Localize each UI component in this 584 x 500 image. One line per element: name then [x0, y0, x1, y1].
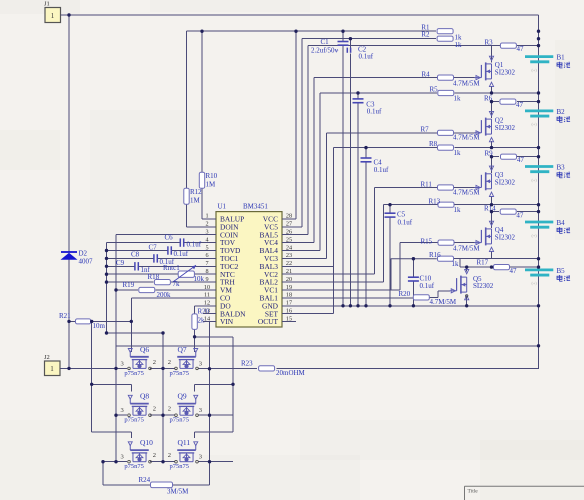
- pin 14 VIN: [203, 315, 234, 326]
- pin 8 NTC: [203, 268, 235, 279]
- wire TRH row left of R18: [107, 281, 154, 283]
- wire pin 23 riser: [326, 133, 328, 259]
- resistor R7: [421, 126, 481, 142]
- wire pin 21 stub: [282, 273, 375, 275]
- wire R24 right riser: [209, 462, 211, 485]
- wire TOC1 row left of C8: [107, 257, 154, 259]
- resistor R5: [430, 86, 462, 103]
- pin 26 BAL5: [260, 229, 296, 240]
- svg-text:C5: C5: [397, 211, 406, 219]
- svg-text:4.7M/5M: 4.7M/5M: [430, 298, 457, 306]
- wire row3 left: [103, 461, 127, 463]
- wire C5 bottom: [389, 217, 391, 306]
- svg-text:1M: 1M: [190, 197, 201, 205]
- wire BALDN stub: [203, 313, 216, 315]
- resistor R19: [123, 281, 172, 299]
- svg-text:BM3451: BM3451: [243, 203, 268, 211]
- svg-text:1k: 1k: [455, 41, 463, 49]
- diode D2: [61, 250, 94, 266]
- wire Q9 gate stub: [194, 384, 196, 391]
- transistor Q7: [175, 349, 199, 370]
- wire C3 bottom: [357, 103, 359, 306]
- transistor Q6: [128, 349, 152, 370]
- svg-text:21: 21: [286, 268, 292, 275]
- resistor R21: [59, 312, 106, 330]
- svg-text:2: 2: [168, 406, 171, 413]
- wire node row: [454, 147, 491, 149]
- wire R24 left drop: [102, 462, 104, 485]
- wire R17 row left: [460, 266, 494, 268]
- battery B4: [525, 219, 570, 238]
- wire pin 21 riser: [374, 188, 376, 275]
- svg-text:47: 47: [516, 211, 524, 219]
- wire gate row to Q10: [92, 431, 132, 433]
- transistor Q3: [474, 166, 493, 196]
- svg-text:R3: R3: [485, 38, 494, 46]
- wire node row: [454, 204, 491, 206]
- wire row to R5: [320, 92, 437, 94]
- svg-text:19: 19: [286, 284, 292, 291]
- wire into DOIN pin 2: [187, 226, 204, 228]
- wire Q1 source down: [491, 86, 493, 93]
- svg-text:(+): (+): [532, 67, 538, 72]
- svg-text:20: 20: [286, 276, 292, 283]
- wire R20 to Q5 gate1: [429, 296, 438, 298]
- wire VC1 row to R16: [391, 258, 437, 260]
- wire OCUT pin 15 stub: [282, 321, 296, 323]
- wire gate lead Q2: [454, 132, 474, 134]
- pin 15 OCUT: [258, 315, 296, 326]
- svg-text:24: 24: [286, 244, 292, 251]
- wire jog down to R17 row: [459, 259, 461, 267]
- svg-text:p75n75: p75n75: [124, 463, 143, 470]
- wire Q8 gate stub: [130, 384, 132, 391]
- wire row to R8: [334, 147, 437, 149]
- wire middle bus vertical: [162, 333, 164, 462]
- wire into BALUP pin 1: [202, 218, 203, 220]
- pin 12 DO: [203, 300, 231, 311]
- wire Q7 gate stub: [194, 337, 196, 352]
- wire CO pin11 row: [131, 297, 203, 299]
- svg-text:(+): (+): [532, 281, 538, 286]
- wire DO to R22 top: [194, 306, 196, 314]
- svg-text:1k: 1k: [454, 206, 462, 214]
- wire VIN descender: [209, 322, 211, 369]
- svg-text:R11: R11: [421, 181, 433, 189]
- wire pin 26 riser: [307, 46, 309, 235]
- svg-text:R16: R16: [429, 251, 441, 259]
- pin 27 VC5: [264, 221, 296, 232]
- wire SET pin 16 row: [282, 313, 334, 315]
- wire row3 middle: [150, 461, 175, 463]
- svg-text:Q9: Q9: [178, 392, 187, 401]
- wire Q3 source down: [491, 196, 493, 203]
- svg-text:R23: R23: [241, 360, 253, 368]
- svg-text:27: 27: [286, 221, 292, 228]
- wire down to R12: [186, 31, 188, 188]
- pin circle Q5 source: [466, 295, 468, 297]
- resistor R11: [421, 181, 481, 197]
- svg-text:R5: R5: [430, 86, 439, 94]
- transistor Q10: [128, 442, 152, 463]
- wire R9 to node: [517, 156, 539, 158]
- wire R14 to node: [517, 211, 539, 213]
- pin 10 VM: [203, 284, 232, 295]
- svg-text:R7: R7: [421, 126, 430, 134]
- svg-text:+: +: [336, 48, 339, 54]
- svg-text:1k: 1k: [454, 149, 462, 157]
- resistor R10: [199, 172, 217, 189]
- wire R19 right to VM pin: [156, 289, 204, 291]
- resistor R3: [485, 38, 525, 53]
- op-amp U1 BM3451 IC body: [216, 203, 282, 328]
- wire VCC net y=31: [187, 30, 437, 32]
- wire right pin3 bus: [209, 369, 211, 462]
- wire COIN / left bus vertical: [115, 235, 117, 462]
- wire TOVD row left of C7: [107, 250, 168, 252]
- wire BAL1 row to R20: [282, 297, 413, 299]
- wire cap bus vertical: [106, 243, 108, 333]
- wire pin 22 stub: [282, 265, 334, 267]
- svg-text:R4: R4: [422, 71, 431, 79]
- wire node row: [454, 258, 491, 260]
- wire row to R15: [400, 242, 437, 244]
- pin 24 BAL4: [260, 244, 296, 255]
- svg-text:3: 3: [199, 454, 202, 461]
- wire TOV row right of C6: [184, 242, 203, 244]
- resistor R20: [399, 290, 457, 306]
- svg-text:2: 2: [153, 359, 156, 366]
- wire R16 right: [454, 258, 460, 260]
- svg-text:R21: R21: [59, 312, 71, 320]
- wire pin 27 riser: [301, 39, 303, 227]
- resistor R1: [421, 23, 462, 41]
- svg-text:2: 2: [205, 221, 208, 228]
- battery B3: [525, 164, 570, 183]
- wire row2 right: [198, 414, 233, 416]
- wire left gate feed vertical: [91, 321, 93, 432]
- svg-text:1: 1: [50, 365, 54, 373]
- svg-text:3: 3: [205, 229, 208, 236]
- resistor R24: [139, 476, 190, 496]
- battery B5: [525, 267, 570, 286]
- svg-text:R2: R2: [421, 31, 430, 39]
- svg-text:47: 47: [516, 101, 524, 109]
- svg-text:R20: R20: [399, 290, 411, 298]
- capacitor C7: [149, 244, 189, 258]
- svg-text:6: 6: [205, 252, 208, 259]
- pin 28 VCC: [263, 213, 296, 224]
- wire Q5 source to GND row: [466, 297, 468, 306]
- wire Q4 source down: [491, 251, 493, 258]
- transistor Q5: [450, 269, 469, 299]
- wire pin 20 riser: [383, 205, 385, 282]
- wire C2 top: [349, 39, 351, 48]
- capacitor C6: [165, 234, 202, 249]
- pin 19 VC1: [264, 284, 296, 295]
- wire R20 to Q5 gate2: [437, 291, 439, 298]
- wire C5 top: [389, 205, 391, 214]
- wire pin 19 stub: [282, 289, 400, 291]
- wire pin 27 stub: [282, 226, 302, 228]
- resistor R23: [241, 360, 306, 378]
- wire R22 bottom: [194, 329, 196, 336]
- resistor R15: [421, 238, 481, 253]
- connector J1: [44, 1, 69, 23]
- pin 5 TOVD: [203, 244, 241, 255]
- svg-text:9: 9: [205, 276, 208, 283]
- capacitor C5: [385, 211, 413, 227]
- wire gate row to Q8: [92, 383, 132, 385]
- svg-text:R19: R19: [123, 281, 135, 289]
- wire pin 23 stub: [282, 257, 327, 259]
- svg-text:13: 13: [204, 308, 210, 315]
- svg-text:B3: B3: [557, 164, 566, 172]
- wire Q11 gate stub: [194, 432, 196, 438]
- svg-text:47: 47: [517, 156, 525, 164]
- wire C1 bottom to GND: [342, 45, 344, 306]
- capacitor C10: [408, 275, 435, 291]
- connector J2: [44, 354, 69, 376]
- wire pin 19 riser: [399, 243, 401, 290]
- svg-text:B1: B1: [557, 54, 566, 62]
- pin 7 TOC2: [203, 260, 239, 271]
- pin 6 TOC1: [203, 252, 239, 263]
- resistor R8: [429, 140, 461, 157]
- svg-text:R12: R12: [190, 188, 202, 196]
- pin 20 BAL2: [260, 276, 296, 287]
- pin 17 GND: [262, 300, 296, 311]
- wire C1 top: [342, 31, 344, 41]
- svg-text:200k: 200k: [157, 291, 172, 299]
- resistor R13: [429, 198, 462, 215]
- svg-text:R13: R13: [429, 198, 441, 206]
- svg-text:p75n75: p75n75: [124, 417, 143, 424]
- svg-text:28: 28: [286, 213, 292, 220]
- wire C3 top: [357, 93, 359, 99]
- svg-text:R24: R24: [139, 476, 151, 484]
- svg-text:C1: C1: [321, 38, 330, 46]
- wire R6 to node: [517, 101, 539, 103]
- svg-text:J2: J2: [44, 354, 50, 361]
- resistor R14: [484, 204, 524, 219]
- svg-text:25: 25: [286, 236, 292, 243]
- wire R10 to pin1: [201, 188, 203, 219]
- transistor Q8: [128, 395, 152, 416]
- svg-text:23: 23: [286, 252, 292, 259]
- svg-text:7: 7: [205, 260, 208, 267]
- wire R12 to pin2: [186, 204, 188, 227]
- svg-text:0.1uf: 0.1uf: [174, 250, 189, 258]
- pin 18 BAL1: [260, 292, 296, 303]
- wire VC5 row to R2: [302, 38, 436, 40]
- svg-text:47: 47: [510, 267, 518, 275]
- svg-text:22: 22: [286, 260, 292, 267]
- svg-text:OCUT: OCUT: [258, 317, 279, 326]
- svg-text:16: 16: [286, 308, 292, 315]
- wire node row to stack: [492, 204, 539, 206]
- transistor Q9: [175, 395, 199, 416]
- wire CO descender to Q6 gate: [130, 298, 132, 345]
- wire node row to stack: [492, 258, 539, 260]
- svg-text:12: 12: [204, 300, 210, 307]
- svg-text:4.7M/5M: 4.7M/5M: [453, 80, 480, 88]
- wire long B- sense line: [116, 345, 539, 347]
- svg-text:26: 26: [286, 229, 292, 236]
- pin 1 BALUP: [203, 213, 244, 224]
- battery B2: [525, 108, 570, 127]
- wire R3 row down to Q1 drain: [491, 46, 493, 63]
- wire right gate bus: [232, 337, 234, 432]
- wire gate row to Q11: [195, 431, 233, 433]
- wire Q6 gate stub: [130, 345, 132, 352]
- wire BAL5 row to R3: [308, 45, 500, 47]
- svg-text:0.1uf: 0.1uf: [359, 52, 374, 60]
- svg-text:(+): (+): [532, 177, 538, 182]
- wire TOC2 row left of C9: [107, 265, 135, 267]
- svg-text:15: 15: [286, 315, 292, 322]
- wire Q10 gate stub: [130, 432, 132, 438]
- transistor Q11: [175, 442, 199, 463]
- svg-text:U1: U1: [218, 203, 227, 211]
- resistor R22: [192, 308, 210, 330]
- title block: [465, 486, 584, 500]
- wire Q5 drain: [466, 267, 468, 271]
- svg-text:4007: 4007: [79, 258, 94, 266]
- svg-text:Q10: Q10: [140, 438, 153, 447]
- svg-text:R15: R15: [421, 238, 433, 246]
- svg-text:VIN: VIN: [220, 317, 234, 326]
- capacitor C4: [361, 158, 390, 174]
- svg-text:R10: R10: [206, 172, 218, 180]
- svg-text:3: 3: [121, 454, 124, 461]
- svg-text:Title: Title: [468, 489, 479, 495]
- capacitor C9: [116, 259, 151, 274]
- wire pin 20 stub: [282, 281, 384, 283]
- pin 22 BAL3: [260, 260, 296, 271]
- svg-text:2: 2: [168, 359, 171, 366]
- wire pin 25 stub: [282, 242, 314, 244]
- svg-text:J1: J1: [44, 1, 50, 8]
- svg-text:B4: B4: [557, 219, 566, 227]
- svg-text:10k: 10k: [194, 275, 205, 283]
- wire TOV row left of C6: [107, 242, 181, 244]
- wire Q7 to R23: [198, 367, 257, 369]
- svg-text:3: 3: [121, 360, 124, 367]
- wire pin 28 riser: [295, 31, 297, 219]
- svg-text:3: 3: [199, 407, 202, 414]
- svg-text:2: 2: [168, 452, 171, 459]
- svg-text:10m: 10m: [93, 322, 106, 330]
- svg-text:3M/5M: 3M/5M: [167, 488, 189, 496]
- wire VCC row to R1: [296, 30, 436, 32]
- svg-text:0.1uf: 0.1uf: [367, 108, 382, 116]
- wire pin 24 riser: [319, 93, 321, 251]
- svg-text:B2: B2: [557, 108, 566, 116]
- wire pin 22 riser: [333, 148, 335, 267]
- wire Q2 source down: [491, 141, 493, 148]
- resistor R4: [422, 71, 481, 88]
- svg-text:Q8: Q8: [140, 392, 149, 401]
- wire node row: [454, 92, 491, 94]
- wire node row to stack: [492, 147, 539, 149]
- wire row2 left: [116, 414, 127, 416]
- svg-text:Q11: Q11: [178, 438, 191, 447]
- battery B1: [525, 54, 570, 73]
- wire R24 row right: [173, 484, 210, 486]
- wire R19 left: [116, 289, 138, 291]
- wire node row to stack: [492, 92, 539, 94]
- wire TOVD row right of C7: [172, 250, 204, 252]
- wire pin 28 stub: [282, 218, 296, 220]
- svg-text:2: 2: [153, 406, 156, 413]
- svg-text:p75n75: p75n75: [124, 370, 143, 377]
- pin 4 TOV: [203, 236, 236, 247]
- pin 25 VC4: [264, 236, 296, 247]
- svg-text:(+): (+): [532, 233, 538, 238]
- wire row to R13: [384, 204, 438, 206]
- wire pin 26 stub: [282, 234, 308, 236]
- svg-text:p75n75: p75n75: [170, 417, 190, 424]
- svg-text:20mOHM: 20mOHM: [276, 369, 306, 377]
- svg-text:5: 5: [205, 244, 208, 251]
- svg-text:C6: C6: [165, 234, 174, 242]
- wire gate lead Q4: [454, 242, 474, 244]
- svg-text:11: 11: [204, 292, 210, 299]
- svg-text:1nf: 1nf: [141, 266, 151, 274]
- svg-text:SI2302: SI2302: [495, 124, 516, 132]
- wire TOC2 row right of C9: [139, 265, 204, 267]
- svg-text:C9: C9: [116, 259, 125, 267]
- wire C10 bottom: [412, 281, 414, 306]
- wire node to Q2 drain: [491, 102, 493, 119]
- wire J1 down to D2: [68, 15, 70, 252]
- wire gate row to Q9: [195, 383, 233, 385]
- wire NTC row left of Rntc: [107, 273, 179, 275]
- pin 3 COIN: [203, 229, 239, 240]
- svg-text:C7: C7: [149, 244, 158, 252]
- svg-text:Q6: Q6: [140, 345, 149, 354]
- wire GND row: [282, 305, 539, 307]
- wire pack+ top from J1: [69, 14, 539, 16]
- svg-text:(+): (+): [532, 122, 538, 127]
- capacitor C1: [311, 38, 349, 54]
- wire R6 left: [492, 101, 500, 103]
- resistor R16: [429, 251, 459, 268]
- resistor R9: [485, 149, 525, 164]
- svg-text:1: 1: [51, 12, 55, 20]
- svg-text:3: 3: [199, 360, 202, 367]
- wire row to R11: [375, 187, 437, 189]
- svg-text:R8: R8: [429, 140, 438, 148]
- capacitor C3: [353, 99, 383, 116]
- wire pin 24 stub: [282, 250, 320, 252]
- transistor Q1: [474, 56, 493, 86]
- svg-text:0.1uf: 0.1uf: [187, 240, 202, 248]
- wire battery stack right vertical: [538, 15, 540, 369]
- wire R21 right to CO line: [91, 320, 132, 322]
- wire DO pin12 row: [195, 305, 203, 307]
- svg-text:0.1uf: 0.1uf: [374, 166, 389, 174]
- wire row3 right: [198, 461, 233, 463]
- svg-text:17: 17: [286, 300, 292, 307]
- svg-text:0.1uf: 0.1uf: [398, 219, 413, 227]
- svg-text:R18: R18: [148, 273, 160, 281]
- capacitor C8: [131, 251, 175, 267]
- svg-text:2.2uf/50v: 2.2uf/50v: [311, 46, 339, 54]
- pin 11 CO: [203, 292, 231, 303]
- thermistor Rntc1: [163, 264, 205, 283]
